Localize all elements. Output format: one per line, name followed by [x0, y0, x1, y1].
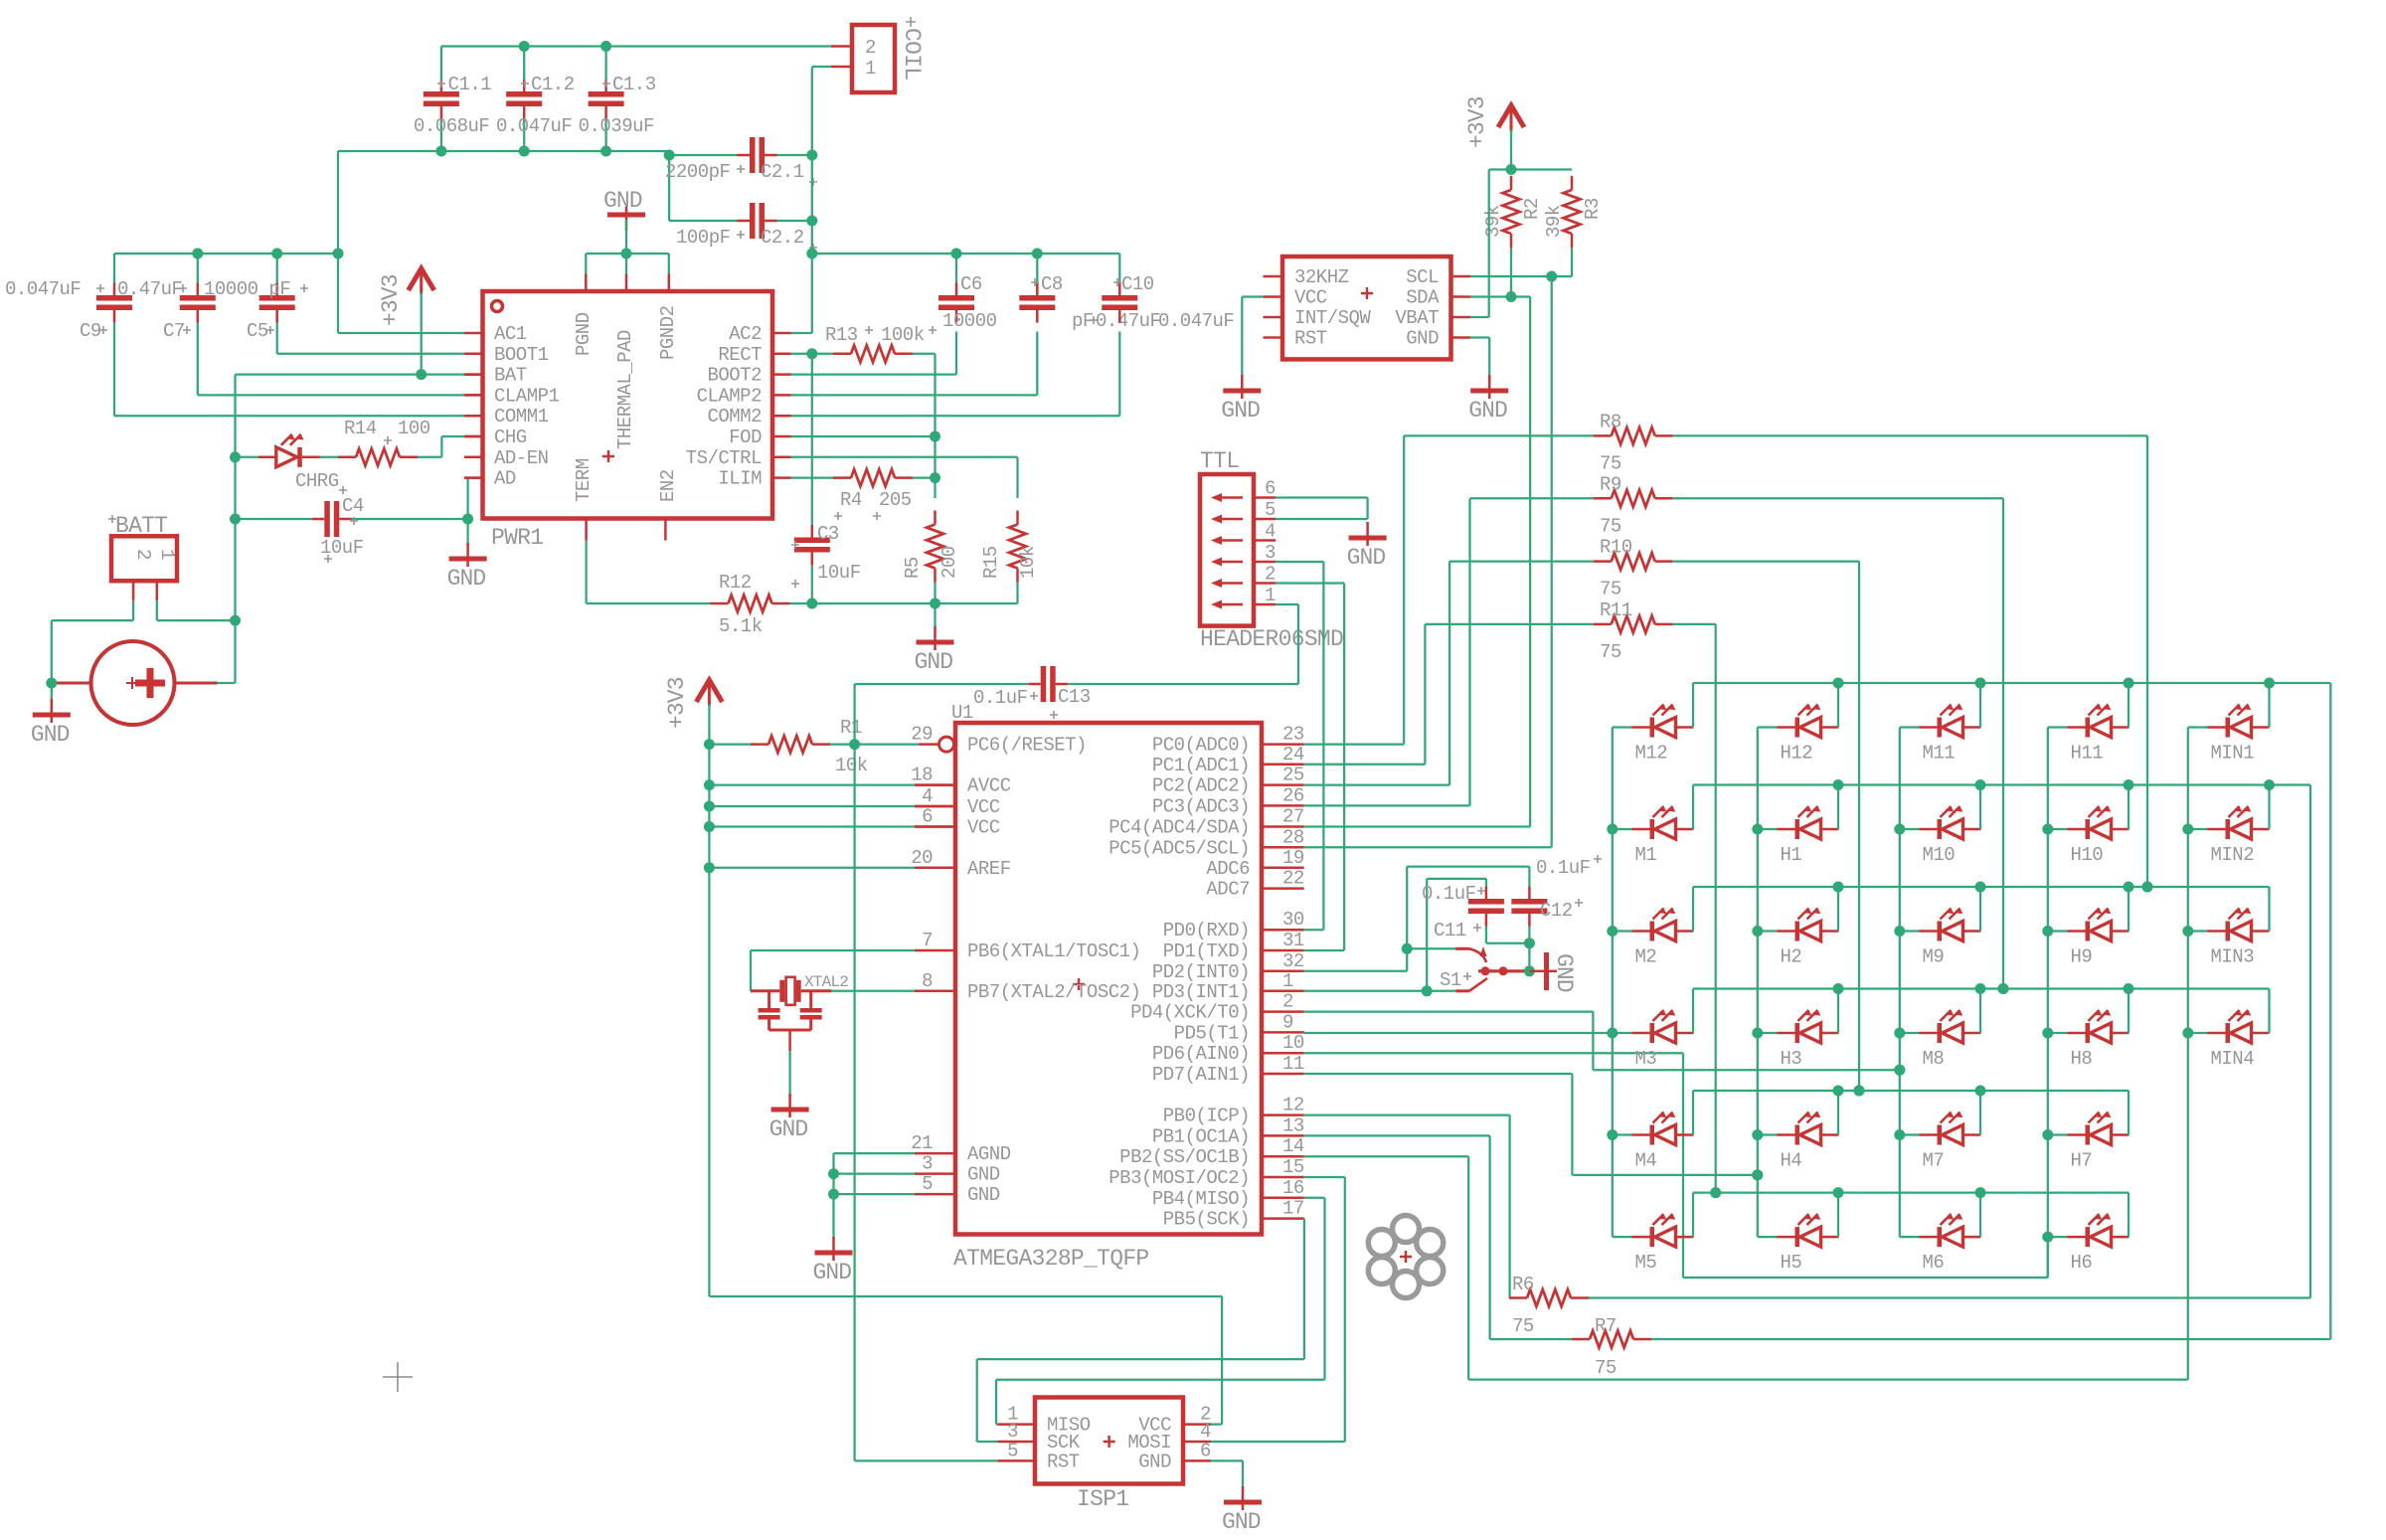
svg-text:8: 8 [922, 970, 933, 992]
capacitor C11 0.1uF [1468, 899, 1504, 905]
svg-text:AVCC: AVCC [967, 775, 1011, 797]
resistor R12 5.1k [587, 602, 711, 604]
svg-text:PB3(MOSI/OC2): PB3(MOSI/OC2) [1108, 1167, 1250, 1189]
svg-text:0.47uF: 0.47uF [1096, 310, 1161, 332]
svg-text:C1.1: C1.1 [448, 74, 492, 95]
wire LED column feed 5 [2187, 728, 2189, 1380]
svg-text:0.047uF: 0.047uF [496, 115, 572, 137]
svg-text:C10: C10 [1121, 273, 1154, 295]
svg-text:PB4(MISO): PB4(MISO) [1152, 1188, 1250, 1210]
svg-text:MIN4: MIN4 [2211, 1048, 2255, 1070]
crosshair mark [383, 1362, 413, 1392]
svg-text:PB0(ICP): PB0(ICP) [1163, 1106, 1250, 1127]
resistor R3 39k [1564, 190, 1581, 234]
ground GND battery [51, 683, 53, 701]
svg-text:HEADER06SMD: HEADER06SMD [1200, 626, 1343, 652]
svg-text:PD7(AIN1): PD7(AIN1) [1152, 1064, 1250, 1086]
wire RECT to C3 vertical [811, 354, 813, 527]
wire TTL pin3 to PD0 [1276, 561, 1323, 563]
PWR1 right pin stubs [772, 332, 791, 335]
svg-text:25: 25 [1282, 765, 1304, 786]
wire R2 R3 top rail [1489, 168, 1572, 170]
led MIN2 [2188, 828, 2208, 830]
svg-text:XTAL2: XTAL2 [804, 973, 848, 991]
svg-text:AC2: AC2 [729, 323, 762, 345]
svg-text:C8: C8 [1041, 273, 1063, 295]
wire RESET net vertical [853, 684, 855, 745]
ground GND above PWR1 [607, 213, 645, 218]
wire C12 top rail [1407, 865, 1529, 867]
wire LED row rail 6 [1693, 1191, 2129, 1193]
power +3V3 left [409, 268, 434, 290]
ground GND RTC right [1470, 389, 1508, 394]
svg-text:27: 27 [1282, 806, 1304, 828]
svg-text:0.1uF: 0.1uF [973, 687, 1028, 709]
led M7 [1900, 1133, 1920, 1135]
svg-text:H9: H9 [2071, 946, 2093, 968]
led H2 [1758, 930, 1778, 932]
wire ISP RST [855, 1459, 998, 1461]
wire rail2 return to R6 [2309, 785, 2311, 1298]
wire SDA row [1470, 295, 1530, 297]
svg-text:24: 24 [1282, 744, 1304, 766]
wire R13 FOD R4 vertical [934, 354, 936, 498]
wire PD4 to M11 column [1304, 1010, 1594, 1012]
svg-text:PD5(T1): PD5(T1) [1174, 1022, 1250, 1044]
svg-text:75: 75 [1600, 452, 1621, 474]
svg-text:CHG: CHG [494, 427, 527, 448]
svg-text:M10: M10 [1923, 844, 1956, 866]
svg-text:5.1k: 5.1k [719, 615, 763, 637]
wire R1 row [709, 743, 751, 745]
wire LED row rail 1 [1693, 682, 2330, 684]
svg-text:1: 1 [865, 58, 876, 80]
svg-text:pF: pF [1072, 310, 1094, 332]
wire TTL pin5 to GND [1276, 518, 1368, 520]
wire LED column feed 3 [1899, 728, 1901, 1238]
capacitor C6 10000pF [938, 295, 974, 301]
svg-text:COIL: COIL [899, 28, 925, 80]
wire battery pin2 [156, 600, 158, 620]
wire RTC GND pin [1470, 336, 1489, 338]
svg-text:0.047uF: 0.047uF [1158, 310, 1234, 332]
svg-text:C11: C11 [1434, 920, 1466, 941]
svg-text:5: 5 [1007, 1440, 1018, 1461]
led MIN4 [2188, 1032, 2208, 1034]
svg-text:H4: H4 [1781, 1150, 1802, 1172]
svg-text:C6: C6 [960, 273, 982, 295]
wire PB1 to R7 [1304, 1134, 1490, 1136]
wire R10 input riser [1449, 562, 1450, 785]
svg-text:75: 75 [1600, 641, 1621, 663]
svg-text:29: 29 [911, 724, 933, 746]
svg-text:GND: GND [915, 649, 953, 675]
svg-text:RECT: RECT [718, 344, 762, 366]
svg-text:M3: M3 [1635, 1048, 1657, 1070]
svg-text:VCC: VCC [967, 796, 1000, 818]
svg-text:ATMEGA328P_TQFP: ATMEGA328P_TQFP [953, 1246, 1149, 1272]
wire AC2 to vertical [791, 332, 812, 334]
resistor R10 75 [1449, 560, 1594, 562]
svg-text:1: 1 [156, 549, 178, 560]
decorative logo [1417, 1258, 1444, 1284]
svg-text:2: 2 [865, 37, 876, 59]
led M1 [1613, 828, 1632, 830]
led M8 [1900, 1032, 1920, 1034]
led H3 [1758, 1032, 1778, 1034]
ground GND U1 [815, 1251, 853, 1256]
svg-text:R8: R8 [1600, 411, 1621, 432]
capacitor C10 0.047uF [1102, 295, 1137, 301]
wire TERM down [585, 541, 587, 604]
svg-text:GND: GND [967, 1184, 1000, 1206]
svg-text:10: 10 [1282, 1032, 1304, 1054]
svg-text:21: 21 [911, 1132, 933, 1154]
wire COMM2 to C10 [791, 415, 1120, 417]
led M12 [1613, 726, 1632, 728]
svg-text:PD2(INT0): PD2(INT0) [1152, 961, 1250, 983]
svg-text:ISP1: ISP1 [1077, 1486, 1128, 1512]
svg-text:R10: R10 [1600, 537, 1632, 559]
svg-text:M9: M9 [1923, 946, 1945, 968]
svg-text:R11: R11 [1600, 599, 1632, 621]
crystal load capacitors [767, 991, 770, 1008]
wire SDA net down to PC4 [1529, 297, 1531, 827]
led H5 [1758, 1236, 1778, 1238]
wire AVCC [709, 783, 915, 785]
wire FOD [791, 435, 936, 437]
capacitor C1.1 [424, 91, 459, 97]
svg-text:R3: R3 [1582, 198, 1604, 220]
svg-text:BOOT2: BOOT2 [707, 365, 762, 387]
led M4 [1613, 1133, 1632, 1135]
wire CLAMP2 to C8 [791, 394, 1038, 396]
svg-text:PC0(ADC0): PC0(ADC0) [1152, 735, 1250, 757]
svg-text:H2: H2 [1781, 946, 1802, 968]
led H10 [2048, 828, 2068, 830]
svg-text:GND: GND [1138, 1451, 1171, 1472]
wire AC1 [338, 332, 464, 334]
svg-text:INT/SQW: INT/SQW [1294, 307, 1371, 329]
pin 29 PC6 with circle [919, 743, 938, 746]
svg-text:12: 12 [1282, 1095, 1304, 1116]
svg-text:CLAMP2: CLAMP2 [697, 385, 763, 407]
wire TTL pin2 to PD1 [1276, 582, 1344, 584]
wire BOOT2 to C6 [791, 373, 957, 375]
resistor R1 10k [768, 736, 812, 753]
svg-text:C5: C5 [247, 320, 268, 342]
svg-text:75: 75 [1595, 1357, 1617, 1379]
svg-text:PWR1: PWR1 [491, 525, 543, 551]
connector COIL [852, 25, 895, 92]
wire VCC to GND [1242, 295, 1263, 297]
svg-text:75: 75 [1600, 579, 1621, 600]
wire TTL pin1 DTR to C13 [1276, 603, 1298, 605]
wire PB3 MOSI [1304, 1176, 1345, 1178]
wire RECT row R13 [791, 353, 834, 355]
svg-text:0.47uF: 0.47uF [117, 278, 183, 300]
svg-text:5: 5 [922, 1173, 933, 1195]
ground GND ISP [1224, 1500, 1262, 1505]
svg-text:H1: H1 [1781, 844, 1802, 866]
led M11 [1900, 726, 1920, 728]
resistor R8 75 [1404, 434, 1594, 436]
wire C2 left vertical [668, 151, 670, 221]
svg-text:14: 14 [1282, 1135, 1304, 1157]
wire R11 input riser [1424, 624, 1426, 765]
svg-text:H7: H7 [2071, 1150, 2093, 1172]
svg-text:H11: H11 [2071, 743, 2104, 765]
wire R9 input riser [1468, 498, 1470, 805]
svg-text:R4: R4 [840, 489, 862, 511]
wire +3V3 to ISP VCC [709, 1295, 1222, 1297]
wire PD7 to H column [1304, 1073, 1573, 1075]
svg-text:15: 15 [1282, 1156, 1304, 1178]
svg-text:BOOT1: BOOT1 [494, 344, 549, 366]
svg-text:H3: H3 [1781, 1048, 1802, 1070]
svg-text:7: 7 [922, 930, 933, 951]
led H11 [2048, 726, 2068, 728]
svg-text:THERMAL_PAD: THERMAL_PAD [614, 330, 636, 449]
wire SCL net down to PC5 [1551, 276, 1553, 847]
led M5 [1613, 1236, 1632, 1238]
svg-text:TERM: TERM [573, 458, 595, 502]
IC U1 ATMEGA328P_TQFP [955, 723, 1262, 1235]
svg-text:10uF: 10uF [817, 562, 861, 584]
wire ISP GND [1211, 1459, 1243, 1461]
led M9 [1900, 930, 1920, 932]
capacitor C3 10uF [794, 538, 830, 544]
svg-text:GND: GND [967, 1164, 1000, 1186]
resistor R15 10k [1009, 525, 1026, 569]
svg-text:32: 32 [1282, 950, 1304, 972]
svg-text:10000: 10000 [942, 310, 997, 332]
svg-text:BATT: BATT [115, 513, 167, 539]
svg-text:75: 75 [1600, 515, 1621, 537]
svg-text:PGND: PGND [573, 312, 595, 356]
led M2 [1613, 930, 1632, 932]
svg-text:R6: R6 [1512, 1274, 1534, 1295]
capacitor C1.3 [589, 91, 624, 97]
svg-text:75: 75 [1512, 1315, 1534, 1337]
wire R8 output down [2146, 435, 2148, 887]
resistor R5 200 [927, 525, 943, 569]
svg-text:AD: AD [494, 468, 516, 490]
wire PD5 to M column [1304, 1032, 1613, 1034]
svg-text:C12: C12 [1540, 900, 1573, 922]
capacitor C2.2 100pF [750, 203, 756, 239]
led M3 [1613, 1032, 1632, 1034]
led MIN1 [2188, 726, 2208, 728]
svg-text:PB6(XTAL1/TOSC1): PB6(XTAL1/TOSC1) [967, 941, 1140, 962]
svg-text:M7: M7 [1923, 1150, 1945, 1172]
svg-text:TTL: TTL [1200, 448, 1239, 474]
svg-text:H8: H8 [2071, 1048, 2093, 1070]
svg-text:39k: 39k [1482, 205, 1504, 238]
wire SCL row [1470, 275, 1572, 277]
svg-text:AGND: AGND [967, 1143, 1011, 1165]
svg-text:17: 17 [1282, 1198, 1304, 1220]
power +3V3 RTC [1498, 105, 1524, 127]
wire LED row rail 5 [1693, 1090, 2129, 1092]
svg-text:0.1uF: 0.1uF [1536, 857, 1591, 879]
wire LED row rail 4 [1693, 987, 2270, 989]
svg-text:39k: 39k [1543, 205, 1565, 238]
svg-text:ADC7: ADC7 [1206, 879, 1250, 901]
svg-text:R1: R1 [840, 717, 862, 739]
svg-text:GND: GND [1347, 545, 1386, 571]
wire PD2 to S1 [1304, 970, 1408, 972]
svg-text:6: 6 [1265, 478, 1276, 500]
resistor R11 75 [1425, 623, 1593, 625]
svg-text:M4: M4 [1635, 1150, 1657, 1172]
IC PWR1 wireless power receiver [483, 291, 773, 519]
svg-text:CLAMP1: CLAMP1 [494, 385, 560, 407]
wire AC1 net vertical [337, 151, 339, 333]
svg-text:VBAT: VBAT [1395, 307, 1439, 329]
svg-text:BAT: BAT [494, 365, 527, 387]
svg-text:R15: R15 [980, 546, 1002, 579]
svg-text:10k: 10k [1017, 546, 1039, 579]
svg-text:FOD: FOD [729, 427, 762, 448]
svg-text:PD0(RXD): PD0(RXD) [1163, 920, 1250, 941]
PWR1 left pin stubs [464, 353, 483, 356]
svg-text:0.1uF: 0.1uF [1422, 883, 1476, 905]
svg-text:H10: H10 [2071, 844, 2104, 866]
svg-text:31: 31 [1282, 930, 1304, 951]
svg-text:2: 2 [132, 549, 154, 560]
svg-text:18: 18 [911, 765, 933, 786]
capacitor C13 0.1uF [855, 683, 1028, 685]
svg-text:GND: GND [769, 1116, 808, 1142]
capacitor C5 [259, 295, 295, 301]
svg-text:AREF: AREF [967, 858, 1011, 880]
svg-text:H5: H5 [1781, 1252, 1802, 1274]
svg-text:M12: M12 [1635, 743, 1668, 765]
wire PGND top pins [586, 253, 669, 255]
svg-text:PD3(INT1): PD3(INT1) [1152, 981, 1250, 1003]
svg-text:100pF: 100pF [676, 227, 731, 249]
capacitor C12 0.1uF [1511, 899, 1547, 905]
svg-text:C3: C3 [817, 523, 839, 545]
svg-text:SDA: SDA [1406, 287, 1440, 309]
svg-text:GND: GND [1406, 328, 1439, 350]
svg-text:PC1(ADC1): PC1(ADC1) [1152, 755, 1250, 776]
svg-text:M1: M1 [1635, 844, 1657, 866]
wire AGND GND pins [834, 1152, 916, 1154]
svg-text:1: 1 [1265, 585, 1276, 606]
svg-text:MIN2: MIN2 [2211, 844, 2255, 866]
wire LED row rail 2 [1693, 783, 2310, 785]
capacitor C2.1 2200pF [750, 137, 756, 173]
svg-text:2: 2 [1282, 991, 1293, 1013]
svg-text:R12: R12 [719, 572, 752, 594]
svg-text:AC1: AC1 [494, 323, 527, 345]
svg-text:100k: 100k [881, 324, 925, 346]
ground GND S1 [1529, 970, 1544, 973]
svg-text:C1.3: C1.3 [612, 74, 656, 95]
svg-text:C2.1: C2.1 [761, 161, 804, 183]
capacitor C4 10uF [236, 518, 312, 520]
wire AC2 rail right [812, 253, 1120, 255]
wire R9 output down [2002, 498, 2004, 988]
svg-text:23: 23 [1282, 724, 1304, 746]
ground GND under R5 [934, 603, 936, 628]
svg-text:M11: M11 [1923, 743, 1956, 765]
svg-text:PB2(SS/OC1B): PB2(SS/OC1B) [1119, 1146, 1250, 1168]
svg-text:3: 3 [922, 1153, 933, 1175]
svg-text:C4: C4 [342, 495, 364, 517]
svg-text:PGND2: PGND2 [657, 305, 679, 360]
svg-text:R13: R13 [825, 324, 858, 346]
wire ISP MOSI [1211, 1441, 1345, 1443]
svg-text:C7: C7 [163, 320, 185, 342]
capacitor C7 [180, 295, 216, 301]
svg-text:PC6(/RESET): PC6(/RESET) [967, 735, 1087, 757]
svg-text:PC4(ADC4/SDA): PC4(ADC4/SDA) [1108, 817, 1250, 839]
wire VCC pin6 [709, 825, 915, 827]
capacitor C8 0.47uF [1019, 295, 1055, 301]
svg-text:30: 30 [1282, 909, 1304, 931]
ground GND crystal [771, 1108, 809, 1112]
svg-text:PB1(OC1A): PB1(OC1A) [1152, 1125, 1250, 1147]
IC RTC 32KHZ [1282, 257, 1451, 359]
svg-text:GND: GND [31, 722, 70, 748]
wire BAT [236, 373, 465, 375]
crystal XTAL2 circuit [751, 949, 915, 951]
resistor R9 75 [1470, 497, 1594, 499]
wire cap top rail [114, 253, 338, 255]
svg-text:2200pF: 2200pF [665, 161, 731, 183]
svg-text:TS/CTRL: TS/CTRL [686, 447, 762, 469]
wire C11 top rail [1427, 878, 1486, 880]
capacitor C9 [96, 295, 132, 301]
svg-text:M2: M2 [1635, 946, 1657, 968]
connector ISP1 [1035, 1398, 1183, 1484]
svg-text:28: 28 [1282, 826, 1304, 848]
svg-text:M5: M5 [1635, 1252, 1657, 1274]
ground GND below C4 [466, 519, 468, 545]
wire R8 input riser [1403, 435, 1405, 744]
wire rail1 return to R7 [2329, 683, 2331, 1339]
svg-text:GND: GND [447, 566, 486, 592]
wire LED column feed 2 [1757, 728, 1759, 1238]
wire PB5 SCK [1303, 1217, 1305, 1219]
wire AD pin down [464, 476, 483, 479]
svg-text:200: 200 [938, 546, 960, 579]
svg-text:R9: R9 [1600, 473, 1621, 495]
U1 left stubs [915, 783, 955, 786]
U1 right pin stubs and numbers [1262, 743, 1304, 746]
svg-text:EN2: EN2 [657, 469, 679, 502]
wire PB0 to R6 [1304, 1113, 1510, 1115]
svg-text:+3V3: +3V3 [1464, 96, 1490, 148]
svg-text:MIN1: MIN1 [2211, 743, 2255, 765]
svg-text:19: 19 [1282, 847, 1304, 869]
wire LED row rail 3 [1693, 886, 2270, 888]
svg-text:PD1(TXD): PD1(TXD) [1163, 941, 1250, 962]
svg-text:PB7(XTAL2/TOSC2): PB7(XTAL2/TOSC2) [967, 981, 1140, 1003]
svg-text:GND: GND [1222, 1509, 1261, 1535]
led H1 [1758, 828, 1778, 830]
wire PD6 to H11 column [1304, 1052, 1683, 1054]
svg-text:PD6(AIN0): PD6(AIN0) [1152, 1043, 1250, 1065]
svg-text:R7: R7 [1595, 1315, 1617, 1337]
svg-text:10uF: 10uF [320, 537, 364, 559]
svg-text:M8: M8 [1923, 1048, 1945, 1070]
led MIN3 [2188, 930, 2208, 932]
svg-text:C2.2: C2.2 [761, 227, 804, 249]
